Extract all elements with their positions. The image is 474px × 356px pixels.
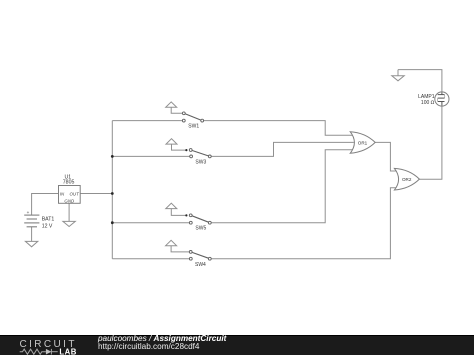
wire 5V bus vertical — [111, 121, 113, 259]
wire bus to SW4 left throw — [112, 258, 189, 260]
wire bus to SW3 left throw — [112, 155, 190, 157]
wire bus to SW5 left throw — [112, 222, 189, 224]
svg-text:OR1: OR1 — [358, 140, 368, 145]
junction SW3 flag terminal — [185, 149, 187, 151]
ground under U1 — [63, 203, 75, 226]
ground flag of SW5 (rotated) — [166, 203, 177, 208]
lamp LAMP1 100 ohm — [418, 92, 449, 106]
or gate OR2 — [394, 168, 419, 190]
wire OR1 output to OR2 input 1 — [375, 142, 397, 171]
wire SW1 common to OR1 input 1 — [204, 121, 354, 136]
svg-text:100 Ω: 100 Ω — [421, 100, 435, 106]
svg-text:SW1: SW1 — [188, 124, 199, 130]
svg-text:SW4: SW4 — [195, 262, 206, 268]
or gate OR1 — [350, 132, 375, 154]
svg-text:OR2: OR2 — [402, 177, 412, 182]
wire SW3 common to OR1 input 2 — [211, 142, 354, 156]
svg-text:12 V: 12 V — [42, 224, 53, 230]
wire battery plus to U1 IN — [32, 194, 59, 216]
svg-text:+: + — [27, 210, 30, 215]
wire SW5 common to OR1 input 3 — [211, 150, 353, 223]
ground top right — [392, 70, 404, 81]
ground flag of SW4 (rotated) — [166, 240, 177, 245]
wire OR2 output to LAMP1 bottom — [419, 106, 442, 180]
wire SW1 flag stem — [171, 107, 182, 113]
svg-text:LAMP1: LAMP1 — [418, 94, 435, 100]
switch SW3 — [189, 149, 211, 166]
svg-text:7805: 7805 — [63, 179, 75, 185]
battery BAT1 12 V — [24, 215, 39, 227]
svg-text:SW3: SW3 — [195, 159, 206, 165]
svg-text:OUT: OUT — [70, 191, 80, 196]
junction SW5 row on bus — [111, 221, 114, 224]
junction SW5 flag terminal — [185, 214, 187, 216]
CircuitLab logo — [0, 336, 98, 356]
wire SW3 flag stem — [172, 144, 187, 150]
svg-text:BAT1: BAT1 — [42, 217, 55, 223]
ground flag of SW1 (rotated) — [166, 102, 177, 107]
wire SW4 common to OR2 input 2 — [211, 188, 397, 259]
wire SW4 flag stem — [171, 246, 189, 252]
wire LAMP1 top to ground — [398, 70, 442, 93]
ground under BAT1 — [25, 227, 37, 247]
switch SW1 — [182, 112, 203, 130]
wire bus to SW1 left throw — [112, 120, 182, 122]
voltage regulator U1 7805 — [59, 174, 81, 203]
wire SW5 flag stem — [171, 209, 186, 216]
switch SW5 — [189, 214, 211, 232]
junction SW3 row on bus — [111, 155, 114, 158]
svg-text:GND: GND — [64, 199, 75, 204]
ground flag of SW3 (rotated) — [166, 139, 177, 144]
switch SW4 — [189, 251, 211, 269]
junction U1 OUT on bus — [111, 192, 114, 195]
wire U1 OUT to 5V bus — [80, 193, 112, 195]
svg-text:SW5: SW5 — [195, 226, 206, 232]
